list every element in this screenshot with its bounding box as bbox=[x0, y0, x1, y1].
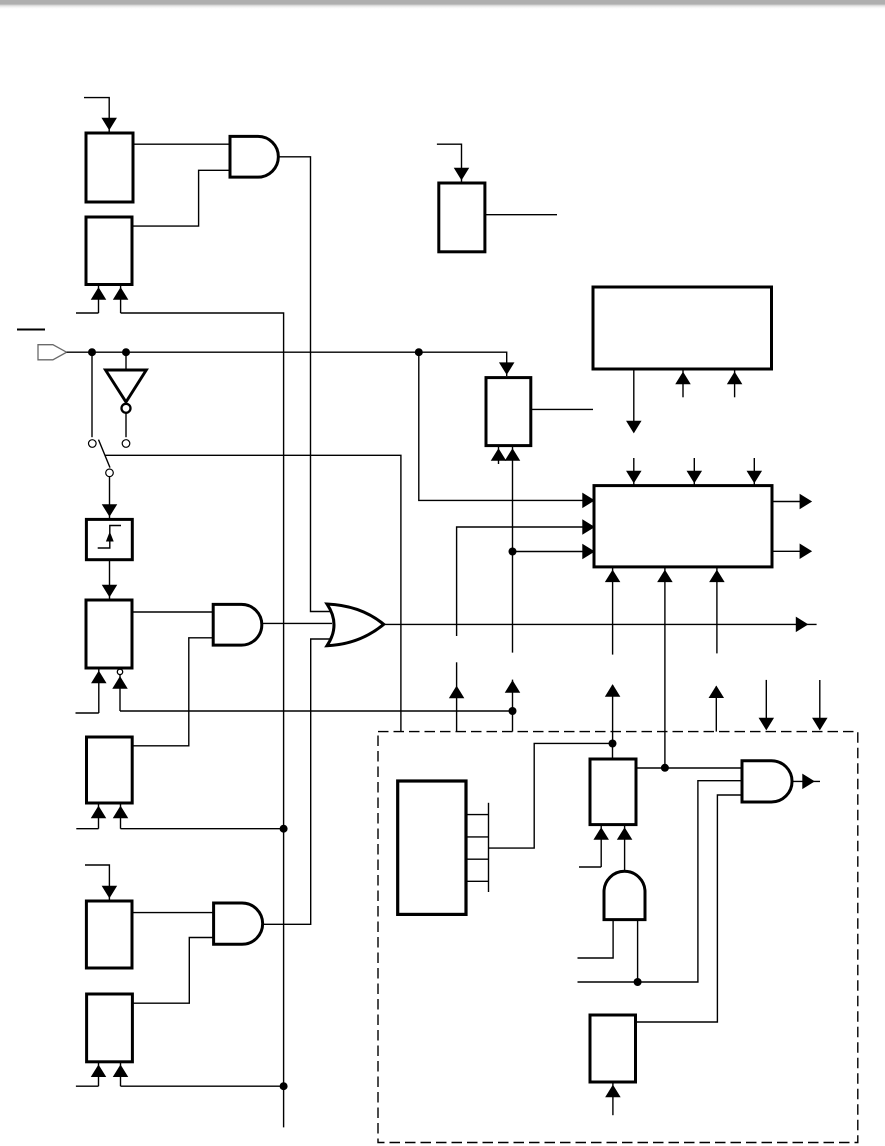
AND G6 right input down to junction bbox=[637, 920, 639, 982]
wire L output up to AND G4 lower input bbox=[636, 795, 743, 1022]
wire comb to register K top bbox=[489, 743, 613, 848]
register F bus write strobes (bottom pins) bbox=[76, 803, 127, 829]
node: junction on K output bbox=[661, 764, 669, 772]
wire OR output (count enable) with arrow bbox=[384, 618, 817, 631]
node: feedback junction bbox=[509, 707, 517, 715]
flip-flop M inverted pin (bubble) bbox=[114, 669, 127, 711]
wire K output to AND G4 bbox=[636, 767, 742, 769]
wire junction into register K bbox=[612, 744, 614, 760]
register B (second control register) bbox=[86, 217, 132, 285]
wire G3 lower input from register D output bbox=[132, 938, 213, 1004]
mux block H (output mux) bbox=[594, 486, 772, 567]
wire schmitt to counter flip-flop M bbox=[103, 560, 116, 599]
register L (mode latch) bbox=[590, 1015, 636, 1082]
mux block H top stub 2 bbox=[688, 458, 701, 486]
schmitt trigger / synchronizer box bbox=[86, 519, 132, 559]
mux H bottom arrow 2 (from compare match) bbox=[658, 567, 671, 768]
dashed control logic boundary bbox=[378, 732, 858, 1143]
wire OR bottom input from AND G3 output bbox=[263, 639, 332, 924]
wire B output up to AND G1 lower input bbox=[132, 170, 230, 226]
AND G4 output with arrow bbox=[792, 775, 820, 788]
register I (prescaler reset reg) bbox=[439, 183, 485, 252]
control block G (TCCR control box) bbox=[593, 287, 772, 369]
wire mode select to mux input 2 bbox=[457, 521, 594, 637]
AND gate G6 (vertical) bbox=[604, 871, 645, 919]
wire A output to AND G1 bbox=[133, 143, 230, 145]
node: junction at counter input branch bbox=[415, 348, 423, 356]
register K (output compare flip-flop) bbox=[590, 759, 636, 825]
register K clock pin (left) bbox=[579, 825, 608, 867]
AND gate G3 bbox=[214, 903, 263, 944]
wire into register C top bbox=[85, 865, 116, 900]
node: junction above register K bbox=[609, 740, 617, 748]
wire counter branch to mux input 1 bbox=[419, 352, 594, 507]
down signal arrow into control logic at x819 bbox=[813, 680, 826, 729]
register B bus write strobes (bottom pins) bbox=[76, 285, 127, 314]
switch pole contact circle bbox=[106, 469, 114, 477]
OR gate G5 bbox=[327, 604, 384, 646]
wire C output to AND G3 bbox=[132, 912, 214, 914]
block G bottom up-arrow stub 2 bbox=[728, 369, 741, 397]
wire AND G6 output to register K pin bbox=[618, 825, 631, 872]
register D bus write strobes (bottom pins) bbox=[76, 1062, 127, 1086]
register A (top control register) bbox=[86, 133, 133, 202]
node: junction at inverter branch bbox=[122, 348, 130, 356]
wire switch tap to control logic (down right side) bbox=[105, 455, 401, 731]
AND gate G4 bbox=[742, 761, 792, 802]
inverter output lead to switch contact bbox=[125, 414, 127, 438]
arrowhead into register E top bbox=[500, 363, 513, 374]
mux H output 2 with arrow bbox=[772, 545, 811, 558]
wire M output to AND G2 bbox=[132, 611, 213, 613]
wire junction to mux input 3 bbox=[513, 551, 594, 553]
wire F output up to AND G2 lower input bbox=[132, 638, 213, 746]
up signal arrow from control logic at x716 bbox=[710, 686, 723, 731]
register E (counter value register) bbox=[486, 378, 531, 446]
switch contact circle (true input) bbox=[89, 440, 97, 448]
register D bbox=[87, 994, 133, 1062]
switch blade (edge select) bbox=[99, 440, 111, 468]
overline of input pin label bbox=[17, 329, 45, 331]
wire into register I top bbox=[437, 144, 468, 182]
inverter U1 bbox=[106, 352, 147, 413]
flip-flop M clock pin (left) bbox=[76, 668, 106, 713]
up signal arrow from control logic at x456 bbox=[450, 662, 463, 731]
junction on data-bus at register D stub bbox=[280, 1082, 288, 1090]
block J output comb bar bbox=[466, 803, 489, 892]
mux H output 1 with arrow bbox=[772, 495, 811, 508]
mux H bottom arrow 3 (stub) bbox=[710, 567, 723, 654]
top grey bar bbox=[0, 0, 885, 10]
down signal arrow into control logic at x766 bbox=[760, 680, 773, 729]
main input net wire bbox=[67, 352, 507, 376]
mux block H top stub 1 bbox=[627, 458, 640, 486]
block G bottom up-arrow stub 1 bbox=[677, 369, 690, 397]
input pin Tn (pentagon) bbox=[38, 345, 67, 360]
wire E output stub bbox=[531, 408, 593, 410]
node: junction at switch branch bbox=[88, 348, 96, 356]
wire G2 output to OR gate middle input bbox=[262, 622, 332, 624]
mux block H top stub 3 bbox=[748, 458, 761, 486]
node: junction on force-compare net bbox=[634, 978, 642, 986]
node: junction feeding mux input 3 bbox=[509, 548, 517, 556]
wire into register A (clock select stub) bbox=[84, 98, 116, 132]
register F (compare buffer) bbox=[87, 737, 133, 803]
wire F pins to data-bus vertical bbox=[121, 828, 284, 830]
AND gate G1 bbox=[230, 136, 278, 177]
up signal arrow from control logic at x512 bbox=[506, 680, 519, 732]
flip-flop M (edge detector register) bbox=[86, 600, 132, 668]
register E bottom pin (right) down to mux input junction bbox=[506, 446, 519, 653]
register E bottom pin (left stub) bbox=[492, 446, 505, 464]
arrowhead mux input 3 bbox=[583, 545, 594, 558]
switch contact circle (inverted input) bbox=[122, 440, 130, 448]
waveform generator block J bbox=[398, 781, 466, 914]
direct lead to switch contact bbox=[91, 352, 93, 437]
wire B pins to long data-bus vertical bbox=[121, 313, 284, 1127]
wire G1 output down to OR gate top input bbox=[278, 157, 331, 612]
up signal arrow from control logic at x612 bbox=[606, 685, 619, 744]
junction on data-bus at register F stub bbox=[280, 825, 288, 833]
wire bubble pin to control feedback node bbox=[120, 710, 513, 712]
wire switch pole down to schmitt trigger bbox=[103, 477, 116, 519]
mux H bottom arrow 1 (stub) bbox=[606, 567, 619, 655]
register C bbox=[86, 901, 132, 968]
wire I output stub bbox=[485, 214, 557, 216]
AND G6 left input bbox=[578, 920, 614, 958]
wire D pins to data-bus vertical bbox=[121, 1085, 284, 1087]
register L bottom pin bbox=[606, 1082, 619, 1115]
block G down output arrow bbox=[627, 369, 640, 432]
AND gate G2 bbox=[213, 604, 262, 645]
force-compare net wire to AND G4 middle input bbox=[578, 781, 743, 982]
